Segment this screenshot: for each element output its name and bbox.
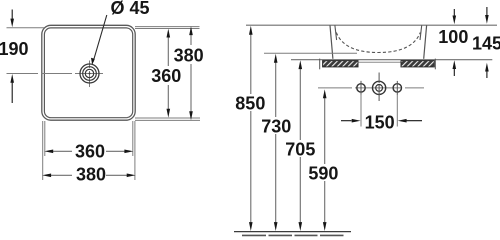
svg-text:380: 380 xyxy=(76,165,106,185)
svg-text:705: 705 xyxy=(285,140,315,160)
counter slab left end cap xyxy=(319,59,321,70)
drain outer circle xyxy=(80,64,99,83)
counter top line xyxy=(291,59,492,61)
drain horizontal centerline xyxy=(7,73,104,75)
dim 380 vertical top arrow (up) xyxy=(189,26,193,35)
dim 190 top arrow (pointing down) xyxy=(11,10,13,20)
floor hatch dashes xyxy=(242,234,344,236)
square right edge extension lines (bottom) xyxy=(132,121,134,156)
dim 730 line xyxy=(275,61,277,223)
svg-text:145: 145 xyxy=(472,33,500,53)
svg-text:380: 380 xyxy=(174,45,204,65)
basin right inner wall xyxy=(420,25,422,40)
dim 705 line xyxy=(299,67,301,223)
counter slab right (hatched) xyxy=(401,61,434,67)
label Ø45 leader line xyxy=(93,15,107,62)
svg-text:100: 100 xyxy=(438,27,468,47)
dim 590 line xyxy=(324,96,326,223)
faucet holes centerline xyxy=(318,87,424,89)
basin outer rim (square, rounded corners) xyxy=(42,25,135,120)
counter cutout back edge line xyxy=(358,61,401,63)
faucet hole left circle xyxy=(357,84,365,92)
floor line xyxy=(234,231,351,233)
bowl bottom extension line xyxy=(264,52,357,54)
faucet hole right circle xyxy=(393,84,401,92)
drain inner circle xyxy=(85,69,93,77)
square bottom edge extension lines (right) xyxy=(135,117,200,119)
dim 100 bottom arrow (pointing up) xyxy=(453,68,455,77)
svg-text:360: 360 xyxy=(151,66,181,86)
svg-text:150: 150 xyxy=(365,112,395,132)
dim 360 horizontal line xyxy=(52,150,126,152)
dim 705 top arrow (up) xyxy=(299,60,303,69)
basin left inner wall xyxy=(335,25,337,40)
faucet hole right cross xyxy=(396,81,398,95)
svg-text:730: 730 xyxy=(261,117,291,137)
counter slab right end cap xyxy=(434,59,436,70)
dim 150 left extension line xyxy=(360,95,362,127)
dim 150 right arrow (outside, pointing left) xyxy=(405,120,422,122)
svg-text:850: 850 xyxy=(235,93,265,113)
dim 850 line xyxy=(250,33,252,223)
dim 190 bottom arrow (pointing up) xyxy=(11,82,13,103)
basin right outer wall xyxy=(424,25,427,58)
faucet hole left cross xyxy=(360,81,362,95)
dim 360 vertical top arrow (up) xyxy=(167,29,171,38)
drain middle circle xyxy=(83,67,97,81)
dim 590 top arrow (up) xyxy=(323,89,327,98)
dim 705 bottom arrow (down) xyxy=(299,222,303,231)
dim 145 top arrow (pointing down) xyxy=(486,7,488,15)
svg-text:Ø 45: Ø 45 xyxy=(111,0,150,18)
dim 380 vertical bottom arrow (down) xyxy=(189,111,193,120)
dim 100 top arrow (pointing down) xyxy=(453,9,455,17)
square left edge extension lines (bottom) xyxy=(42,121,44,180)
dim 850 bottom arrow (down) xyxy=(249,222,253,231)
square top edge extension lines (right) xyxy=(135,26,200,28)
svg-text:190: 190 xyxy=(0,39,29,59)
dim 360 horizontal right arrow xyxy=(124,150,133,154)
dim 380 horizontal line xyxy=(50,174,128,176)
basin left outer wall xyxy=(330,25,333,58)
bowl interior hidden curve (dashed) xyxy=(336,33,420,53)
basin rim top line / extension xyxy=(246,24,497,26)
dim 730 top arrow (up) xyxy=(274,54,278,63)
drain vertical centerline xyxy=(89,61,91,88)
dim 360 horizontal left arrow xyxy=(44,150,53,154)
dim 360 vertical bottom arrow (down) xyxy=(167,109,171,118)
faucet hole middle inner circle xyxy=(376,85,383,92)
dim 380 horizontal left arrow xyxy=(42,174,51,178)
dim 150 right extension line xyxy=(396,95,398,127)
dim 590 bottom arrow (down) xyxy=(323,222,327,231)
dim 190 top extension line xyxy=(7,27,45,29)
dim 850 top arrow (up) xyxy=(249,26,253,35)
dim 360 vertical line xyxy=(167,34,169,112)
dim 145 bottom arrow (pointing up) xyxy=(486,70,488,78)
dim 380 horizontal right arrow xyxy=(127,174,136,178)
svg-text:590: 590 xyxy=(308,163,338,183)
dim 380 vertical line xyxy=(190,32,192,114)
dim 730 bottom arrow (down) xyxy=(274,222,278,231)
svg-text:360: 360 xyxy=(75,142,105,162)
basin inner rim xyxy=(44,28,132,118)
drain center dot xyxy=(89,73,91,75)
dim 150 left arrow (outside, pointing right) xyxy=(341,120,352,122)
faucet hole middle outer circle xyxy=(373,81,386,94)
counter slab left (hatched) xyxy=(323,61,358,67)
faucet hole middle vertical centerline xyxy=(378,73,380,102)
label Ø45 leader arrowhead xyxy=(91,58,95,65)
